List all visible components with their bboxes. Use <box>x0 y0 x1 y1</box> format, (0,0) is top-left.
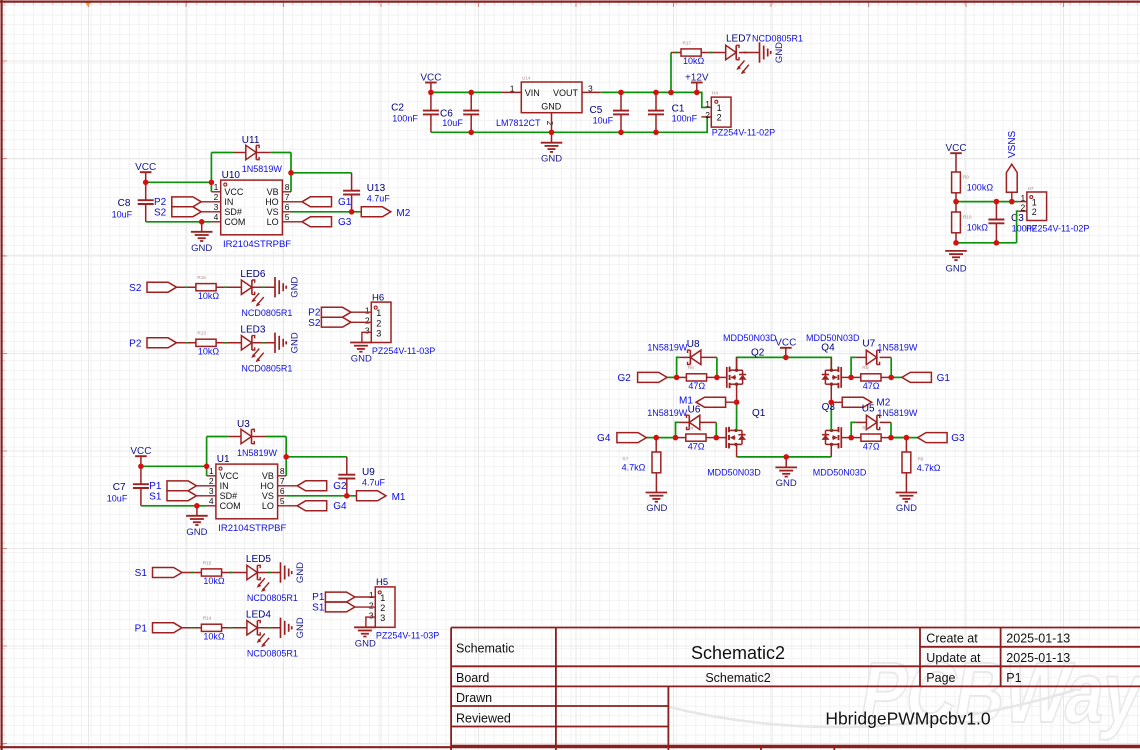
svg-text:C5: C5 <box>590 105 603 116</box>
svg-text:1: 1 <box>1032 197 1037 207</box>
svg-text:G1: G1 <box>338 197 352 208</box>
svg-text:C2: C2 <box>391 103 404 114</box>
svg-text:2: 2 <box>376 318 381 328</box>
svg-text:R16: R16 <box>197 275 206 280</box>
svg-text:1: 1 <box>705 99 710 109</box>
svg-text:10uF: 10uF <box>593 116 614 126</box>
svg-text:Reviewed: Reviewed <box>456 712 511 726</box>
svg-text:S1: S1 <box>149 491 162 502</box>
svg-text:47Ω: 47Ω <box>688 381 705 391</box>
svg-text:HO: HO <box>265 197 279 207</box>
svg-text:10uF: 10uF <box>442 118 463 128</box>
svg-text:LM7812CT: LM7812CT <box>496 118 541 128</box>
svg-text:U9: U9 <box>362 467 375 478</box>
svg-text:1N5819W: 1N5819W <box>647 343 688 353</box>
svg-text:VB: VB <box>262 471 274 481</box>
svg-text:2: 2 <box>365 316 370 326</box>
svg-text:2025-01-13: 2025-01-13 <box>1006 651 1070 665</box>
svg-text:NCD0805R1: NCD0805R1 <box>247 649 298 659</box>
svg-text:R6: R6 <box>688 365 694 370</box>
svg-text:GND: GND <box>541 153 562 164</box>
svg-text:COM: COM <box>220 501 241 511</box>
svg-text:G4: G4 <box>333 501 347 512</box>
svg-text:S1: S1 <box>312 603 325 614</box>
svg-text:10kΩ: 10kΩ <box>967 223 989 233</box>
svg-text:LED4: LED4 <box>246 609 271 620</box>
svg-text:5: 5 <box>285 212 290 222</box>
svg-text:6: 6 <box>280 486 285 496</box>
svg-text:2: 2 <box>380 603 385 613</box>
svg-text:1: 1 <box>376 308 381 318</box>
svg-text:GND: GND <box>945 264 966 275</box>
svg-text:GND: GND <box>351 354 372 365</box>
svg-text:Update at: Update at <box>926 651 981 665</box>
svg-text:NCD0805R1: NCD0805R1 <box>241 364 292 374</box>
svg-text:NCD0805R1: NCD0805R1 <box>241 308 292 318</box>
svg-text:GND: GND <box>774 42 785 63</box>
svg-text:10kΩ: 10kΩ <box>198 347 220 357</box>
svg-text:GND: GND <box>191 243 212 254</box>
svg-text:PZ254V-11-02P: PZ254V-11-02P <box>1026 224 1089 234</box>
svg-text:P1: P1 <box>1006 671 1021 685</box>
svg-text:LO: LO <box>262 501 274 511</box>
svg-text:2: 2 <box>705 110 710 120</box>
svg-text:G3: G3 <box>951 433 965 444</box>
svg-text:VIN: VIN <box>525 88 540 98</box>
svg-text:4.7kΩ: 4.7kΩ <box>622 463 646 473</box>
svg-text:Create at: Create at <box>926 632 978 646</box>
svg-text:1: 1 <box>717 103 722 113</box>
svg-text:H7: H7 <box>1028 186 1034 191</box>
svg-text:H5: H5 <box>376 577 388 588</box>
svg-text:G3: G3 <box>338 217 352 228</box>
svg-text:R14: R14 <box>203 616 212 621</box>
svg-text:47Ω: 47Ω <box>863 381 880 391</box>
svg-text:2025-01-13: 2025-01-13 <box>1006 632 1070 646</box>
svg-text:H6: H6 <box>372 292 384 303</box>
svg-text:U7: U7 <box>862 339 875 350</box>
svg-text:U8: U8 <box>687 339 700 350</box>
svg-text:LO: LO <box>267 217 279 227</box>
svg-text:GND: GND <box>295 562 306 583</box>
svg-text:2: 2 <box>209 476 214 486</box>
svg-text:4: 4 <box>214 212 219 222</box>
svg-text:VB: VB <box>267 187 279 197</box>
svg-text:G2: G2 <box>333 481 347 492</box>
svg-text:2: 2 <box>545 121 555 126</box>
svg-text:1N5819W: 1N5819W <box>877 343 918 353</box>
svg-text:M2: M2 <box>396 208 410 219</box>
svg-text:S2: S2 <box>308 318 321 329</box>
svg-text:GND: GND <box>776 478 797 489</box>
svg-text:U11: U11 <box>242 135 260 146</box>
svg-text:IN: IN <box>220 481 229 491</box>
svg-text:7: 7 <box>280 476 285 486</box>
svg-text:1N5819W: 1N5819W <box>242 164 283 174</box>
svg-text:4: 4 <box>209 496 214 506</box>
svg-text:P2: P2 <box>129 339 142 350</box>
svg-text:1: 1 <box>369 590 374 600</box>
svg-text:NCD0805R1: NCD0805R1 <box>247 593 298 603</box>
svg-text:R17: R17 <box>683 40 692 45</box>
svg-text:GND: GND <box>289 332 300 353</box>
svg-text:1: 1 <box>510 83 515 93</box>
svg-text:S1: S1 <box>135 568 148 579</box>
svg-text:P2: P2 <box>308 307 321 318</box>
svg-text:M1: M1 <box>392 492 406 503</box>
svg-text:U6: U6 <box>688 404 701 415</box>
svg-text:SD#: SD# <box>220 491 238 501</box>
svg-text:4.7kΩ: 4.7kΩ <box>917 463 941 473</box>
svg-text:IN: IN <box>224 197 233 207</box>
svg-text:VCC: VCC <box>220 471 240 481</box>
svg-text:2: 2 <box>1032 207 1037 217</box>
svg-text:MDD50N03D: MDD50N03D <box>806 333 860 343</box>
svg-text:1: 1 <box>209 466 214 476</box>
svg-text:1: 1 <box>214 182 219 192</box>
svg-text:NCD0805R1: NCD0805R1 <box>752 33 803 43</box>
svg-text:SD#: SD# <box>224 207 242 217</box>
svg-text:Board: Board <box>456 671 489 685</box>
svg-text:2: 2 <box>369 600 374 610</box>
svg-text:R5: R5 <box>862 365 868 370</box>
svg-text:3: 3 <box>369 610 374 620</box>
svg-text:10kΩ: 10kΩ <box>683 56 705 66</box>
svg-text:Q1: Q1 <box>752 408 766 419</box>
svg-text:Page: Page <box>926 671 955 685</box>
svg-text:LED5: LED5 <box>246 554 271 565</box>
svg-text:R10: R10 <box>963 215 972 220</box>
svg-text:HO: HO <box>260 481 274 491</box>
svg-text:3: 3 <box>365 326 370 336</box>
svg-text:GND: GND <box>355 639 376 650</box>
svg-text:3: 3 <box>209 486 214 496</box>
svg-text:VOUT: VOUT <box>553 88 579 98</box>
svg-text:P1: P1 <box>135 624 148 635</box>
svg-text:2: 2 <box>717 113 722 123</box>
svg-text:PZ254V-11-03P: PZ254V-11-03P <box>376 631 439 641</box>
svg-text:GND: GND <box>541 101 562 111</box>
svg-text:VS: VS <box>267 207 279 217</box>
svg-text:2: 2 <box>214 192 219 202</box>
svg-text:IR2104STRPBF: IR2104STRPBF <box>223 239 291 250</box>
svg-text:R13: R13 <box>197 331 206 336</box>
svg-text:C8: C8 <box>118 198 131 209</box>
svg-text:3: 3 <box>376 328 381 338</box>
svg-text:5: 5 <box>280 496 285 506</box>
svg-text:U14: U14 <box>522 76 531 81</box>
svg-text:MDD50N03D: MDD50N03D <box>723 333 777 343</box>
svg-text:10kΩ: 10kΩ <box>203 632 225 642</box>
svg-text:U10: U10 <box>222 170 241 181</box>
svg-text:LED7: LED7 <box>726 33 751 44</box>
svg-text:4.7uF: 4.7uF <box>362 477 386 487</box>
svg-text:3: 3 <box>380 613 385 623</box>
svg-text:G2: G2 <box>617 373 631 384</box>
svg-text:100nF: 100nF <box>392 114 418 124</box>
svg-text:Drawn: Drawn <box>456 691 492 705</box>
svg-text:U13: U13 <box>367 183 386 194</box>
svg-text:S2: S2 <box>154 207 167 218</box>
svg-text:VCC: VCC <box>224 187 244 197</box>
svg-text:VSNS: VSNS <box>1007 130 1018 158</box>
svg-text:47Ω: 47Ω <box>863 441 880 451</box>
svg-text:7: 7 <box>285 192 290 202</box>
svg-text:100nF: 100nF <box>672 114 698 124</box>
svg-text:GND: GND <box>289 277 300 298</box>
svg-text:C3: C3 <box>1011 213 1024 224</box>
svg-text:VS: VS <box>262 491 274 501</box>
svg-text:U1: U1 <box>217 454 230 465</box>
svg-text:MDD50N03D: MDD50N03D <box>707 468 761 478</box>
svg-text:47Ω: 47Ω <box>688 441 705 451</box>
svg-text:100kΩ: 100kΩ <box>967 183 994 193</box>
svg-text:U3: U3 <box>237 419 250 430</box>
svg-text:Q2: Q2 <box>751 347 765 358</box>
svg-text:4.7uF: 4.7uF <box>367 193 391 203</box>
svg-text:1N5819W: 1N5819W <box>237 448 278 458</box>
svg-text:8: 8 <box>285 182 290 192</box>
svg-text:Q4: Q4 <box>821 343 835 354</box>
svg-text:Schematic: Schematic <box>456 642 514 656</box>
svg-text:GND: GND <box>646 503 667 514</box>
svg-text:PZ254V-11-03P: PZ254V-11-03P <box>372 346 435 356</box>
svg-text:Schematic2: Schematic2 <box>691 643 785 663</box>
svg-text:R15: R15 <box>203 560 212 565</box>
svg-text:IR2104STRPBF: IR2104STRPBF <box>218 523 286 534</box>
svg-text:C7: C7 <box>113 482 126 493</box>
svg-text:S2: S2 <box>129 283 142 294</box>
svg-text:COM: COM <box>224 217 245 227</box>
svg-text:1N5819W: 1N5819W <box>647 408 688 418</box>
svg-text:6: 6 <box>285 202 290 212</box>
svg-text:LED3: LED3 <box>240 324 265 335</box>
svg-text:10kΩ: 10kΩ <box>203 576 225 586</box>
svg-text:3: 3 <box>214 202 219 212</box>
svg-text:10uF: 10uF <box>112 209 133 219</box>
svg-text:10kΩ: 10kΩ <box>198 291 220 301</box>
svg-text:G1: G1 <box>937 373 951 384</box>
svg-text:R4: R4 <box>687 425 693 430</box>
svg-text:R7: R7 <box>622 456 628 461</box>
svg-text:1: 1 <box>365 305 370 315</box>
svg-text:PZ254V-11-02P: PZ254V-11-02P <box>712 127 775 137</box>
svg-text:1: 1 <box>380 593 385 603</box>
svg-text:R8: R8 <box>918 457 924 462</box>
svg-text:G4: G4 <box>597 433 611 444</box>
svg-text:M2: M2 <box>876 398 890 409</box>
svg-text:GND: GND <box>186 527 207 538</box>
svg-text:GND: GND <box>295 617 306 638</box>
svg-text:Schematic2: Schematic2 <box>705 671 770 685</box>
svg-text:3: 3 <box>588 83 593 93</box>
svg-text:HbridgePWMpcbv1.0: HbridgePWMpcbv1.0 <box>825 709 991 729</box>
svg-text:R9: R9 <box>963 175 969 180</box>
svg-text:GND: GND <box>896 503 917 514</box>
svg-text:U5: U5 <box>862 404 875 415</box>
svg-text:8: 8 <box>280 466 285 476</box>
svg-text:R3: R3 <box>862 425 868 430</box>
svg-text:MDD50N03D: MDD50N03D <box>813 468 867 478</box>
svg-text:10uF: 10uF <box>107 493 128 503</box>
svg-text:LED6: LED6 <box>240 269 265 280</box>
svg-text:H4: H4 <box>712 91 718 96</box>
svg-text:P1: P1 <box>312 592 325 603</box>
svg-text:1N5819W: 1N5819W <box>877 408 918 418</box>
